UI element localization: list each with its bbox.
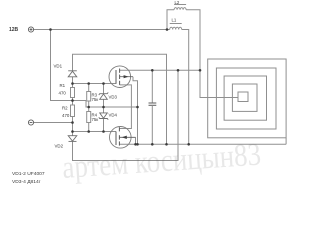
spiral coil ring 5 (238, 92, 248, 102)
svg-text:VD4: VD4 (109, 113, 118, 118)
svg-text:VD3-4 Д814г: VD3-4 Д814г (12, 179, 41, 184)
wire minus terminal (34, 122, 73, 124)
junction dots (49, 28, 52, 31)
svg-text:L2: L2 (175, 0, 180, 5)
wire lower gate line (73, 131, 117, 133)
terminal minus (28, 120, 33, 125)
inductor L2 coil (174, 8, 186, 10)
wire VD2 to bottom bus (73, 71, 179, 161)
svg-text:R2: R2 (62, 106, 68, 111)
wire lower body tie (135, 137, 137, 144)
zener VD4 leads (103, 107, 105, 113)
transistor VT1 arrow (124, 75, 129, 78)
transistor VT1 channel bar (3 segments) (119, 69, 121, 73)
zener VD4 (100, 113, 108, 118)
zener VD3 leads (103, 84, 105, 94)
resistor R3 (87, 92, 91, 102)
svg-text:L1: L1 (172, 17, 177, 22)
resistor R2 (71, 105, 75, 117)
inductor L1 core (170, 23, 182, 25)
transistor VT1 circle (109, 66, 131, 88)
wire upper gate line (73, 83, 117, 85)
svg-text:470: 470 (62, 113, 70, 118)
transistor VT2 arrow (122, 136, 127, 139)
wire VD1 top to cross line (73, 54, 167, 144)
transistor VT2 gate bar (115, 132, 117, 146)
inductor L2 core (174, 4, 186, 6)
inductor L1 coil (170, 27, 182, 29)
wire middle gate-bias node (86, 101, 138, 108)
svg-text:VD1: VD1 (54, 64, 63, 69)
svg-text:R1: R1 (60, 83, 66, 88)
svg-text:75к: 75к (92, 97, 99, 102)
resistor R4 (87, 112, 91, 123)
inductor L1 leads (167, 29, 170, 31)
svg-text:VD1-2 UF4007: VD1-2 UF4007 (12, 171, 45, 177)
svg-text:75к: 75к (92, 117, 99, 122)
transistor VT2 channel bar (3 segments) (118, 127, 120, 131)
spiral coil ring 1 (208, 59, 286, 138)
wire R1 to R2 (72, 98, 74, 106)
transistor VT2 body lead (119, 136, 135, 138)
transistor VT1 gate bar (115, 70, 117, 84)
wire spiral outer stub (285, 138, 287, 145)
wire R2 to VD2 (72, 117, 74, 136)
terminal +12V (28, 27, 33, 32)
spiral coil ring 3 (224, 76, 266, 120)
zener VD3 (100, 94, 108, 99)
wire VD1 to R1 (72, 77, 74, 88)
wire upper body to source rail (133, 77, 138, 145)
svg-text:VD2: VD2 (55, 144, 64, 149)
wire top rail +12V (34, 29, 168, 31)
diode VD1 (68, 71, 77, 77)
spiral coil ring 2 (216, 68, 276, 129)
svg-text:12В: 12В (9, 27, 19, 33)
spiral coil ring 4 (232, 84, 257, 111)
transistor VT2 circle (110, 127, 132, 149)
capacitor C1 bottom lead (151, 105, 153, 144)
wire +12V drop to R1/R2 node (51, 30, 87, 101)
resistor R1 (71, 88, 75, 98)
transistor VT1 body lead (120, 76, 133, 78)
wire source rail (119, 143, 286, 145)
wire drain rail (120, 69, 200, 71)
capacitor C1 top lead (151, 70, 153, 103)
inductor L2 left lead (167, 10, 174, 30)
diode VD2 (68, 136, 77, 142)
inductor L2 right lead to spiral center (186, 10, 238, 98)
capacitor C1 plates (149, 102, 157, 104)
wire upper source to lower drain (119, 85, 131, 129)
svg-text:VD3: VD3 (109, 95, 118, 100)
svg-text:470: 470 (59, 91, 67, 96)
